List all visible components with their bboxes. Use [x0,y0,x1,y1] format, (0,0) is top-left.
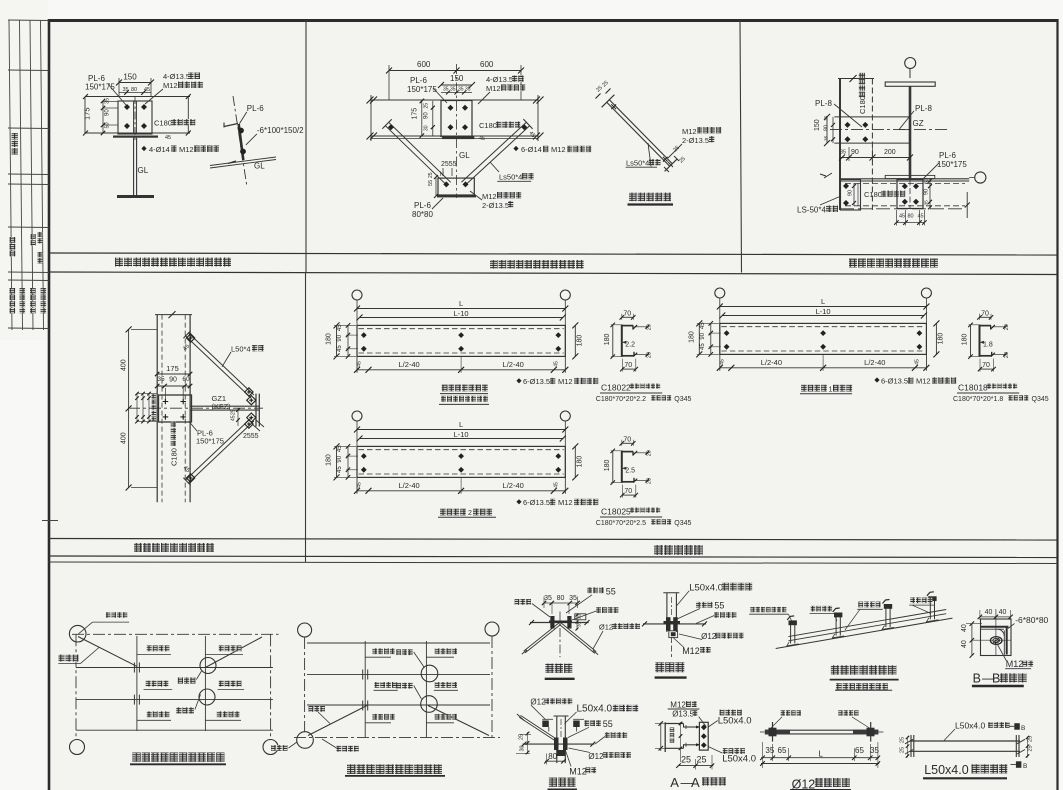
svg-text:180: 180 [937,333,944,345]
svg-text:C180*70*20*1.8: C180*70*20*1.8 [953,396,1003,403]
svg-text:20: 20 [646,478,652,484]
svg-text:Ø12: Ø12 [701,632,717,641]
svg-text:150*175: 150*175 [407,85,437,94]
svg-text:GL: GL [138,166,149,175]
svg-text:35: 35 [840,150,846,156]
svg-text:GZ: GZ [913,119,924,128]
svg-text:20: 20 [646,450,652,456]
svg-text:45: 45 [719,359,725,365]
svg-text:35: 35 [450,87,456,93]
svg-text:L: L [459,299,463,308]
svg-text:40: 40 [961,624,968,632]
svg-text:2555: 2555 [441,161,457,168]
svg-text:4-Ø13.5: 4-Ø13.5 [486,75,513,84]
svg-text:55: 55 [603,719,613,729]
svg-text:25: 25 [1028,745,1034,751]
svg-text:L/2-40: L/2-40 [503,360,524,369]
svg-text:2555: 2555 [243,433,259,440]
svg-text:35: 35 [458,87,464,93]
svg-text:-6*80*80: -6*80*80 [1015,615,1048,625]
svg-text:Q345: Q345 [674,520,691,527]
svg-text:70: 70 [981,310,989,317]
svg-text:L50*4: L50*4 [231,345,251,354]
svg-text:35: 35 [824,115,830,121]
svg-text:6-Ø13.5: 6-Ø13.5 [881,377,908,386]
svg-text:Q345: Q345 [1032,396,1049,403]
svg-text:M12: M12 [682,646,700,656]
svg-text:1.8: 1.8 [983,341,993,348]
svg-text:GL: GL [459,151,470,160]
svg-text:B: B [992,671,1000,685]
svg-text:C180*70*20*2.5: C180*70*20*2.5 [596,520,646,527]
svg-text:150*175: 150*175 [937,160,967,169]
svg-text:2-Ø13.5: 2-Ø13.5 [682,136,709,145]
svg-text:150: 150 [814,119,821,131]
svg-text:45: 45 [914,359,920,365]
svg-text:35: 35 [157,376,165,383]
svg-text:65: 65 [778,746,787,755]
svg-text:80: 80 [557,595,565,602]
svg-text:C180: C180 [479,121,497,130]
svg-text:-6*100*150/2: -6*100*150/2 [257,126,304,135]
svg-text:30: 30 [520,745,526,751]
svg-text:80: 80 [548,752,557,761]
svg-text:A: A [670,775,679,790]
svg-text:35: 35 [824,135,830,141]
svg-text:600: 600 [417,60,431,69]
svg-text:25: 25 [900,737,906,743]
svg-text:35: 35 [765,746,774,755]
svg-text:C180: C180 [154,119,172,128]
svg-text:Ø12: Ø12 [792,777,816,790]
svg-text:80: 80 [908,214,914,220]
svg-text:40: 40 [961,640,968,648]
svg-text:180: 180 [962,334,969,346]
svg-text:45: 45 [553,482,559,488]
svg-text:150*175: 150*175 [196,437,224,446]
svg-text:30: 30 [424,125,430,131]
svg-text:25: 25 [424,103,430,109]
svg-text:M12: M12 [558,377,573,386]
svg-text:B: B [1021,725,1025,732]
svg-text:180: 180 [576,456,583,468]
svg-text:M12: M12 [163,81,178,90]
svg-text:L/2-40: L/2-40 [761,358,782,367]
svg-text:45: 45 [337,445,343,452]
svg-text:LS-50*4: LS-50*4 [797,206,826,215]
svg-text:C18025: C18025 [601,507,631,517]
svg-text:2-Ø13.5: 2-Ø13.5 [482,201,509,210]
svg-text:C180: C180 [858,96,867,114]
svg-text:B: B [1023,763,1027,770]
svg-text:A: A [691,775,700,790]
svg-text:70: 70 [623,310,631,317]
svg-text:150: 150 [450,74,464,83]
svg-text:L50x4.0: L50x4.0 [955,721,986,731]
svg-text:L50x4.0: L50x4.0 [718,716,752,727]
svg-text:180: 180 [326,454,333,466]
svg-text:C180: C180 [864,190,882,199]
svg-text:50: 50 [924,178,930,184]
svg-text:40: 40 [985,609,993,616]
svg-text:L: L [819,749,824,758]
svg-text:50: 50 [105,122,111,128]
svg-text:60: 60 [182,376,190,383]
svg-text:90: 90 [105,109,111,116]
svg-text:90: 90 [848,190,854,196]
svg-text:90: 90 [169,377,177,384]
svg-text:175: 175 [83,107,92,120]
svg-text:4-Ø13.5: 4-Ø13.5 [163,72,190,81]
svg-text:70: 70 [624,362,632,369]
svg-text:40: 40 [999,609,1007,616]
svg-text:PL-8: PL-8 [915,104,932,113]
svg-text:55: 55 [428,180,434,186]
svg-text:M12: M12 [569,767,587,777]
svg-text:55: 55 [606,587,616,597]
svg-text:PL-6: PL-6 [414,201,431,210]
svg-text:600: 600 [480,60,494,69]
svg-text:C180: C180 [170,448,179,466]
svg-text:180: 180 [688,331,695,343]
svg-text:80: 80 [824,125,830,131]
svg-text:70: 70 [623,436,631,443]
svg-text:35: 35 [924,200,930,206]
svg-text:1: 1 [829,386,833,393]
svg-text:90: 90 [337,334,343,341]
svg-text:200: 200 [884,149,896,156]
svg-text:25: 25 [697,754,707,764]
svg-text:45: 45 [479,136,485,142]
svg-text:90: 90 [424,112,430,119]
svg-text:180: 180 [604,334,611,346]
svg-text:Ø12: Ø12 [588,752,604,761]
svg-text:45: 45 [165,135,171,141]
svg-text:400: 400 [121,359,128,371]
svg-text:2.5: 2.5 [625,467,635,474]
svg-text:20: 20 [1004,352,1010,358]
svg-text:Q345: Q345 [674,396,691,403]
svg-text:L-10: L-10 [454,430,469,439]
svg-text:M12: M12 [558,498,573,507]
svg-text:70: 70 [624,488,632,495]
svg-text:180: 180 [604,460,611,472]
svg-text:M12: M12 [482,192,497,201]
svg-text:PL-6: PL-6 [410,76,427,85]
svg-text:2: 2 [468,510,472,517]
svg-text:Ls50*4: Ls50*4 [626,159,649,168]
svg-text:M12: M12 [1006,659,1024,669]
svg-text:45: 45 [357,482,363,488]
svg-text:L/2-40: L/2-40 [503,481,524,490]
svg-text:180: 180 [576,335,583,347]
svg-text:35: 35 [465,87,471,93]
svg-text:45: 45 [700,322,706,329]
svg-text:Ø12: Ø12 [530,698,546,707]
svg-text:M12: M12 [670,701,686,710]
svg-text:L/2-40: L/2-40 [864,358,885,367]
svg-text:45: 45 [337,345,343,352]
svg-text:90: 90 [924,189,930,195]
svg-text:45: 45 [700,343,706,350]
svg-text:L50x4.0: L50x4.0 [722,754,756,765]
svg-text:45: 45 [553,361,559,367]
svg-text:PL-8: PL-8 [815,99,832,108]
svg-text:M12: M12 [682,127,697,136]
svg-text:M12: M12 [551,145,566,154]
svg-text:6-Ø14: 6-Ø14 [521,145,542,154]
svg-text:90: 90 [700,332,706,339]
svg-text:65: 65 [855,746,864,755]
svg-text:20: 20 [646,324,652,330]
svg-text:M12: M12 [486,84,501,93]
svg-text:C180*70*20*2.2: C180*70*20*2.2 [596,396,646,403]
svg-text:25: 25 [900,747,906,753]
svg-text:Ø12: Ø12 [599,622,613,631]
svg-text:400: 400 [121,432,128,444]
svg-text:55: 55 [714,600,724,610]
svg-text:90: 90 [337,455,343,462]
svg-text:Ls50*4: Ls50*4 [499,173,522,182]
svg-text:B: B [973,671,981,685]
svg-text:Ø13.5: Ø13.5 [672,709,694,718]
svg-text:PL-6: PL-6 [247,104,264,113]
svg-text:PL-6: PL-6 [939,151,956,160]
svg-text:6-Ø13.5: 6-Ø13.5 [523,377,550,386]
svg-text:20: 20 [646,352,652,358]
svg-text:6-Ø13.5: 6-Ø13.5 [523,498,550,507]
svg-text:45: 45 [337,466,343,473]
svg-text:45: 45 [231,415,237,421]
svg-text:150: 150 [123,73,137,82]
svg-text:L50x4.0: L50x4.0 [924,763,969,777]
svg-text:80*80: 80*80 [412,210,433,219]
svg-text:L50x4.0: L50x4.0 [689,582,723,593]
svg-text:L50x4.0: L50x4.0 [577,704,613,715]
svg-text:C18018: C18018 [958,383,988,393]
svg-text:35: 35 [569,595,577,602]
svg-text:45: 45 [899,214,905,220]
svg-text:2.2: 2.2 [625,341,635,348]
svg-text:175: 175 [412,108,419,120]
svg-text:L-10: L-10 [454,309,469,318]
svg-text:4-Ø14: 4-Ø14 [149,145,170,154]
svg-text:180: 180 [326,333,333,345]
svg-text:25: 25 [428,172,434,178]
svg-text:L: L [821,297,825,306]
svg-text:25: 25 [681,754,691,764]
svg-text:L: L [459,420,463,429]
svg-text:L/2-40: L/2-40 [398,360,419,369]
svg-text:45: 45 [918,214,924,220]
svg-text:25: 25 [231,409,237,415]
svg-text:175: 175 [166,364,179,373]
svg-text:C18022: C18022 [601,383,631,393]
svg-text:35: 35 [105,98,111,104]
svg-text:35: 35 [443,87,449,93]
svg-text:20: 20 [1004,324,1010,330]
svg-text:L/2-40: L/2-40 [398,481,419,490]
svg-text:GL: GL [254,162,265,171]
svg-text:70: 70 [982,362,990,369]
svg-text:45: 45 [357,361,363,367]
svg-text:L-10: L-10 [816,307,831,316]
svg-text:45: 45 [337,324,343,331]
svg-text:M12: M12 [916,377,931,386]
svg-text:M12: M12 [179,145,194,154]
